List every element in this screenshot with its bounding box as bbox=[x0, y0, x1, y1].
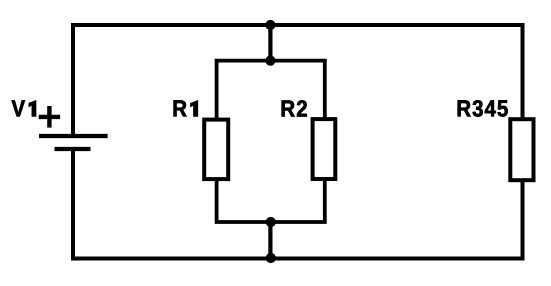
resistor R345 body bbox=[510, 119, 533, 180]
battery plus polarity mark bbox=[39, 106, 60, 128]
junction node inner bottom wire bbox=[266, 217, 276, 227]
junction node inner top wire bbox=[265, 56, 275, 66]
wire inner parallel loop bbox=[217, 61, 325, 222]
resistor R1 body bbox=[204, 120, 228, 180]
junction node top rail bbox=[265, 20, 275, 30]
junction node bottom rail bbox=[266, 253, 276, 263]
label R1 bbox=[174, 100, 198, 116]
wire connector top rail to inner loop bbox=[268, 25, 272, 61]
battery V1 positive plate (long) bbox=[39, 134, 108, 138]
label R345 bbox=[458, 100, 508, 117]
wire outer loop (top rail, right rail, bottom rail, left rail split at battery) bbox=[73, 25, 523, 259]
label V1 bbox=[12, 100, 36, 116]
wire connector inner loop to bottom rail bbox=[268, 222, 272, 259]
resistor R2 body bbox=[313, 119, 336, 179]
label R2 bbox=[282, 100, 307, 116]
battery V1 negative plate (short) bbox=[55, 147, 91, 151]
